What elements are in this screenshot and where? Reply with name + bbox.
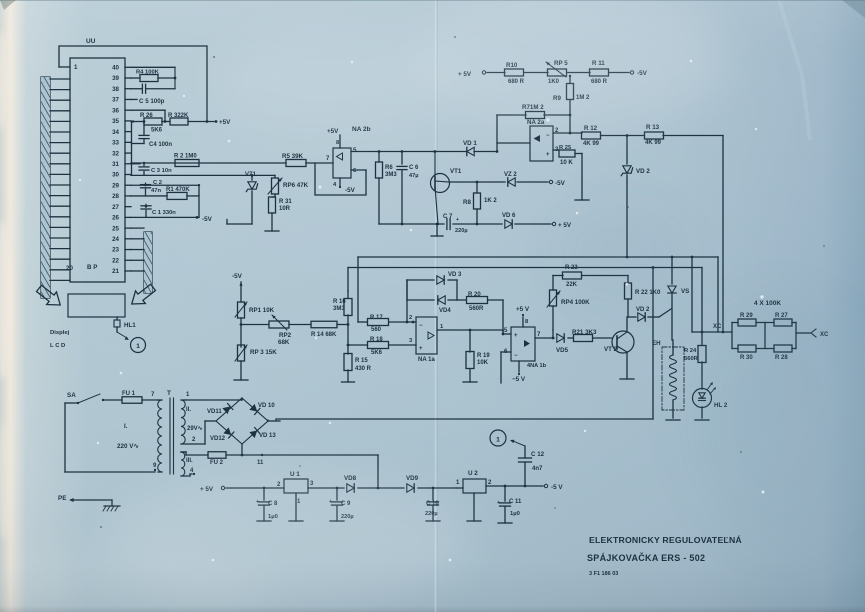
svg-text:1: 1 xyxy=(496,437,500,444)
svg-text:21: 21 xyxy=(112,268,119,275)
svg-text:R8: R8 xyxy=(463,199,471,206)
svg-text:40: 40 xyxy=(112,65,119,72)
svg-text:LCD: LCD xyxy=(50,343,67,349)
svg-text:R 2 1M0: R 2 1M0 xyxy=(174,154,197,160)
svg-text:VT 2: VT 2 xyxy=(604,346,618,353)
svg-text:R21 3K3: R21 3K3 xyxy=(572,329,597,336)
svg-text:RP1 10K: RP1 10K xyxy=(249,307,275,314)
svg-text:-5V: -5V xyxy=(232,273,243,280)
svg-text:EH: EH xyxy=(652,340,661,347)
svg-text:R 16: R 16 xyxy=(333,299,346,305)
svg-text:VT1: VT1 xyxy=(450,168,462,175)
svg-text:34: 34 xyxy=(112,129,119,136)
svg-text:RP 3 15K: RP 3 15K xyxy=(250,349,277,356)
svg-text:220µ: 220µ xyxy=(455,228,468,234)
svg-text:5K6: 5K6 xyxy=(151,128,163,134)
svg-text:3 F1 186 03: 3 F1 186 03 xyxy=(589,571,618,577)
svg-text:VD 1: VD 1 xyxy=(463,140,477,147)
svg-text:VD 3: VD 3 xyxy=(448,272,462,278)
svg-text:−: − xyxy=(546,133,550,139)
svg-text:R 22 1K0: R 22 1K0 xyxy=(635,290,661,296)
svg-text:VD11: VD11 xyxy=(207,409,222,415)
svg-text:560: 560 xyxy=(371,327,382,333)
svg-text:28: 28 xyxy=(112,193,119,200)
svg-text:VZ1: VZ1 xyxy=(245,172,257,178)
svg-text:R 18: R 18 xyxy=(370,337,383,343)
svg-text:-5V: -5V xyxy=(345,187,356,194)
svg-text:35: 35 xyxy=(112,118,119,125)
svg-text:VD 2: VD 2 xyxy=(636,168,650,175)
svg-text:PE: PE xyxy=(58,495,66,502)
svg-text:4NA 1b: 4NA 1b xyxy=(527,363,547,369)
svg-text:I.: I. xyxy=(124,423,128,430)
svg-text:R 24: R 24 xyxy=(684,348,697,354)
svg-text:RP6 47K: RP6 47K xyxy=(283,182,309,189)
svg-text:+: + xyxy=(456,217,459,223)
svg-text:VD 6: VD 6 xyxy=(502,213,516,219)
svg-text:−: − xyxy=(419,323,423,329)
svg-text:+: + xyxy=(514,333,518,339)
svg-text:VZ 2: VZ 2 xyxy=(504,172,517,178)
svg-text:2: 2 xyxy=(409,315,412,321)
svg-text:29V∿: 29V∿ xyxy=(187,426,203,432)
svg-text:UU: UU xyxy=(86,38,96,45)
svg-text:+: + xyxy=(497,500,500,506)
svg-text:SPÁJKOVAČKA ERS - 502: SPÁJKOVAČKA ERS - 502 xyxy=(587,552,705,563)
svg-text:R 17: R 17 xyxy=(370,315,383,321)
svg-text:47µ: 47µ xyxy=(409,173,418,179)
svg-text:1µ0: 1µ0 xyxy=(510,511,520,517)
svg-text:-5 V: -5 V xyxy=(551,484,563,491)
svg-text:-5V: -5V xyxy=(555,180,566,187)
svg-text:B P: B P xyxy=(87,264,97,271)
svg-text:C 12: C 12 xyxy=(531,451,545,458)
svg-text:U 2: U 2 xyxy=(468,470,478,477)
svg-text:+ 5V: + 5V xyxy=(558,222,572,229)
svg-text:38: 38 xyxy=(112,86,119,93)
svg-text:22K: 22K xyxy=(566,282,578,288)
svg-text:39: 39 xyxy=(112,75,119,82)
svg-text:R 26: R 26 xyxy=(140,113,153,119)
svg-text:32: 32 xyxy=(112,150,119,157)
svg-text:24: 24 xyxy=(112,236,119,243)
svg-text:26: 26 xyxy=(112,215,119,222)
svg-text:3M3: 3M3 xyxy=(333,306,345,312)
svg-text:RP4 100K: RP4 100K xyxy=(561,299,590,306)
svg-text:31: 31 xyxy=(112,161,119,168)
svg-text:VD12: VD12 xyxy=(210,436,226,442)
svg-text:II.: II. xyxy=(186,407,191,413)
svg-text:4K 99: 4K 99 xyxy=(645,140,662,146)
svg-text:1: 1 xyxy=(136,343,140,350)
svg-text:VD 13: VD 13 xyxy=(259,433,276,439)
svg-text:220 V∿: 220 V∿ xyxy=(117,443,139,450)
svg-text:SA: SA xyxy=(67,392,76,399)
svg-text:C 7: C 7 xyxy=(443,214,453,220)
svg-text:HL1: HL1 xyxy=(124,322,136,329)
svg-text:C 6: C 6 xyxy=(409,165,419,171)
svg-text:VD4: VD4 xyxy=(439,308,451,314)
svg-text:−: − xyxy=(514,353,518,359)
svg-text:C 2: C 2 xyxy=(153,180,162,186)
svg-text:R 31: R 31 xyxy=(279,199,292,205)
svg-text:10R: 10R xyxy=(279,206,291,212)
svg-text:C 1 330n: C 1 330n xyxy=(152,210,176,216)
svg-text:R 25: R 25 xyxy=(559,145,572,151)
svg-text:5: 5 xyxy=(353,147,357,154)
svg-text:37: 37 xyxy=(112,97,119,104)
svg-text:+5V: +5V xyxy=(219,119,231,126)
svg-text:20: 20 xyxy=(66,265,73,272)
svg-text:Displej: Displej xyxy=(50,330,70,336)
svg-text:3M3: 3M3 xyxy=(385,172,397,178)
svg-text:R4 100K: R4 100K xyxy=(136,70,160,76)
svg-text:XC: XC xyxy=(713,324,722,330)
svg-text:VS: VS xyxy=(681,288,689,295)
svg-text:4n7: 4n7 xyxy=(532,466,543,472)
svg-text:RP2: RP2 xyxy=(279,332,292,339)
svg-text:R5 39K: R5 39K xyxy=(282,153,304,160)
svg-text:C 3 10n: C 3 10n xyxy=(151,168,172,174)
svg-text:+: + xyxy=(419,346,423,352)
svg-text:NA 1a: NA 1a xyxy=(418,357,435,363)
svg-text:5K6: 5K6 xyxy=(371,350,383,356)
svg-text:10K: 10K xyxy=(477,360,489,366)
svg-text:R 15: R 15 xyxy=(355,358,368,364)
svg-text:-5V: -5V xyxy=(202,216,213,223)
svg-text:33: 33 xyxy=(112,140,119,147)
svg-text:C 11: C 11 xyxy=(509,499,522,505)
svg-text:+5 V: +5 V xyxy=(516,306,530,313)
svg-text:560R: 560R xyxy=(469,306,484,312)
svg-text:4K 99: 4K 99 xyxy=(583,141,600,147)
svg-text:ELEKTRONICKY REGULOVATEĽNÁ: ELEKTRONICKY REGULOVATEĽNÁ xyxy=(589,535,742,545)
svg-text:C 5 100p: C 5 100p xyxy=(139,98,165,105)
svg-text:11: 11 xyxy=(257,460,264,466)
svg-text:30: 30 xyxy=(112,172,119,179)
svg-text:T: T xyxy=(167,390,171,397)
svg-text:560R: 560R xyxy=(684,356,699,362)
svg-text:C4 100n: C4 100n xyxy=(149,142,172,148)
svg-text:10 K: 10 K xyxy=(560,160,573,166)
svg-text:25: 25 xyxy=(112,225,119,232)
svg-text:FU 2: FU 2 xyxy=(210,460,224,466)
svg-text:1: 1 xyxy=(74,64,78,71)
svg-text:+: + xyxy=(546,152,550,158)
svg-text:R 13: R 13 xyxy=(646,124,660,131)
svg-text:III.: III. xyxy=(186,458,193,464)
svg-text:VD 10: VD 10 xyxy=(258,403,275,409)
svg-text:36: 36 xyxy=(112,107,119,114)
svg-text:47n: 47n xyxy=(151,188,161,194)
svg-text:FU 1: FU 1 xyxy=(122,391,136,397)
svg-text:VD5: VD5 xyxy=(556,347,569,354)
svg-text:R6: R6 xyxy=(385,165,393,171)
svg-text:R 322K: R 322K xyxy=(168,113,189,119)
svg-text:R 19: R 19 xyxy=(477,353,490,359)
svg-text:68K: 68K xyxy=(278,339,290,346)
svg-text:R 14 68K: R 14 68K xyxy=(311,332,337,338)
svg-text:430 R: 430 R xyxy=(355,366,372,372)
svg-text:22: 22 xyxy=(112,257,119,264)
svg-text:27: 27 xyxy=(112,204,119,211)
svg-text:R 20: R 20 xyxy=(468,292,481,298)
svg-text:VD 2: VD 2 xyxy=(636,307,650,313)
svg-text:1K 2: 1K 2 xyxy=(484,198,497,204)
svg-text:−5 V: −5 V xyxy=(512,376,526,383)
svg-text:29: 29 xyxy=(112,182,119,189)
svg-text:R1 470K: R1 470K xyxy=(166,187,190,193)
svg-text:VD9: VD9 xyxy=(406,475,419,482)
svg-text:23: 23 xyxy=(112,247,119,254)
